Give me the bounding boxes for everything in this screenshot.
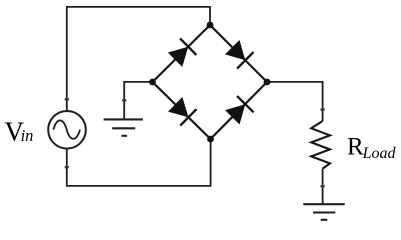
connection tick on right wire lower [321, 185, 325, 187]
connection tick on left wire upper [65, 98, 69, 100]
wire arm left-top [153, 25, 211, 82]
wire left node to ground riser [124, 82, 152, 119]
svg-text:in: in [21, 126, 34, 145]
wire right node to resistor top [267, 82, 323, 121]
node right junction dot [264, 79, 271, 86]
diode D4 (bottom node to right node) [224, 96, 254, 125]
connection tick on left wire lower [65, 166, 69, 168]
diode D2 (top node to right node) [224, 39, 253, 68]
connection tick on right wire upper [321, 108, 325, 110]
voltage source V1 circle [48, 111, 86, 149]
node top junction dot [207, 22, 214, 29]
ground G1 (left, at bridge) [104, 119, 143, 135]
diode bridge diamond arms [153, 25, 268, 139]
wire arm left-bottom [153, 82, 211, 139]
resistor R1 zigzag [311, 121, 330, 169]
wire arm top-right [210, 25, 267, 82]
connection tick on ground riser [122, 99, 126, 101]
voltage source V1 sine wave [53, 120, 80, 138]
diode D1 (left node to top node) [167, 38, 196, 68]
wire bottom loop: Vin bottom to bottom node [67, 139, 211, 186]
ground G2 (under resistor) [303, 204, 344, 220]
wire top loop: Vin top to top node [67, 7, 210, 111]
diode D3 (left node to bottom node) [167, 96, 196, 126]
node left junction dot [149, 79, 156, 86]
svg-text:R: R [347, 133, 364, 160]
wire arm bottom-right [211, 82, 268, 139]
node bottom junction dot [207, 136, 214, 143]
svg-text:Load: Load [362, 145, 397, 162]
wire resistor bottom to ground [322, 169, 324, 204]
